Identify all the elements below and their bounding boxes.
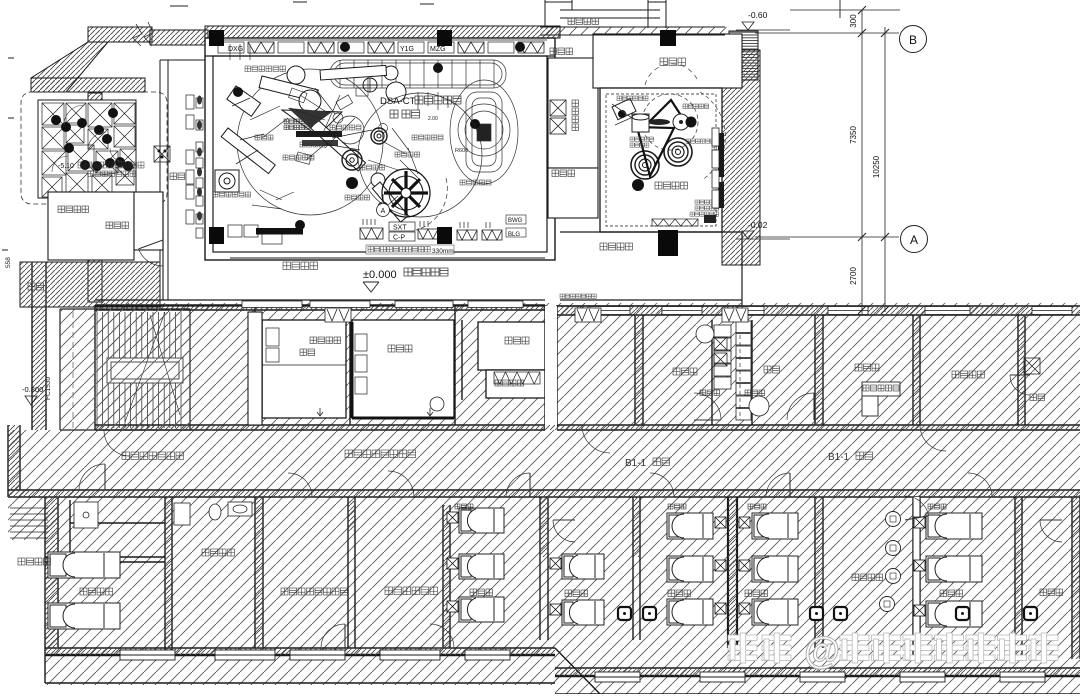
svg-text:A: A xyxy=(910,233,918,247)
svg-text:±0.000: ±0.000 xyxy=(363,269,397,281)
svg-text:BWG: BWG xyxy=(508,218,523,224)
svg-text:B1-1: B1-1 xyxy=(625,458,647,469)
svg-text:B: B xyxy=(909,33,917,47)
svg-text:R600: R600 xyxy=(455,148,468,154)
svg-text:-0.02: -0.02 xyxy=(748,220,768,230)
svg-text:DSA-CT: DSA-CT xyxy=(380,96,416,107)
svg-text:2.00: 2.00 xyxy=(428,116,438,122)
svg-text:Y1G: Y1G xyxy=(400,46,414,53)
svg-text:330mm: 330mm xyxy=(432,248,454,255)
svg-text:-0.60: -0.60 xyxy=(748,10,768,20)
svg-text:B1-1: B1-1 xyxy=(828,452,850,463)
svg-text:-0.800: -0.800 xyxy=(22,385,43,394)
svg-text:@: @ xyxy=(804,630,840,671)
svg-text:10250: 10250 xyxy=(872,155,881,178)
svg-text:-5.10: -5.10 xyxy=(58,163,74,170)
svg-text:FC1530: FC1530 xyxy=(45,376,52,400)
svg-text:300: 300 xyxy=(849,14,858,28)
svg-text:SXT: SXT xyxy=(393,225,407,232)
svg-text:7350: 7350 xyxy=(849,126,858,144)
svg-text:MZG: MZG xyxy=(430,46,446,53)
svg-text:C-P: C-P xyxy=(393,235,405,242)
svg-text:2700: 2700 xyxy=(849,267,858,285)
svg-text:A: A xyxy=(381,208,386,215)
svg-text:558: 558 xyxy=(5,257,12,268)
